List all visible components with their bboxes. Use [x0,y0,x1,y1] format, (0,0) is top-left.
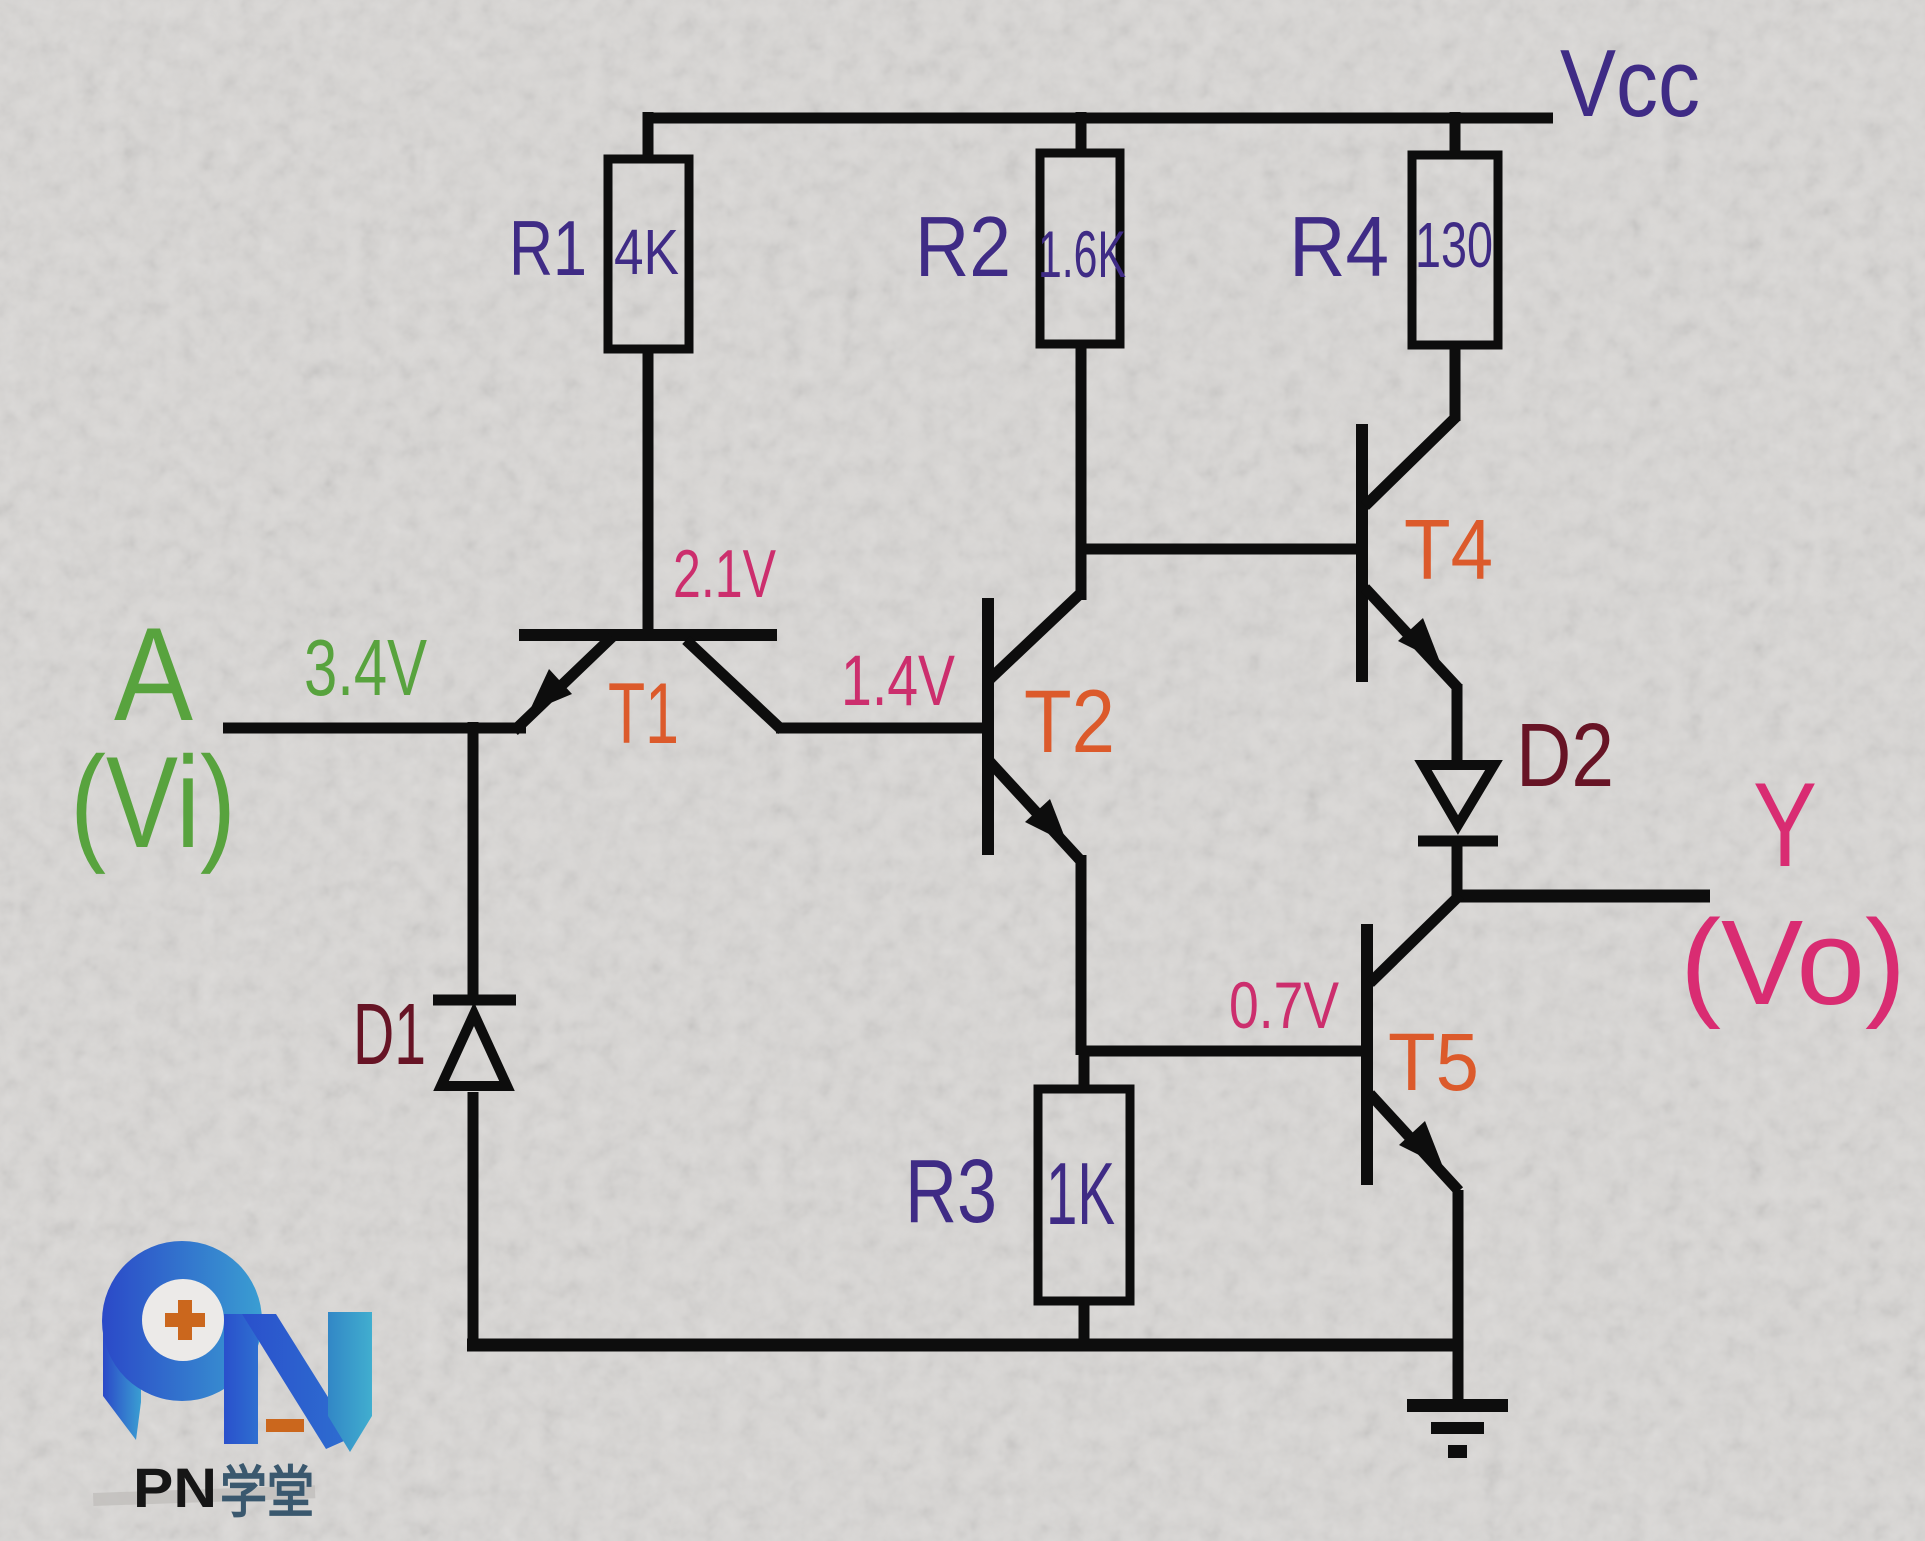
svg-text:PN: PN [133,1456,217,1519]
svg-text:2.1V: 2.1V [673,536,776,612]
svg-text:R4: R4 [1289,200,1389,295]
svg-text:D1: D1 [353,986,426,1083]
svg-text:学堂: 学堂 [220,1461,314,1524]
svg-text:A: A [114,601,193,749]
svg-text:T4: T4 [1404,503,1493,598]
svg-text:Vcc: Vcc [1560,30,1700,137]
svg-text:(Vi): (Vi) [70,729,236,875]
svg-text:T5: T5 [1388,1017,1479,1108]
svg-text:(Vo): (Vo) [1680,894,1906,1030]
svg-text:R2: R2 [915,200,1011,295]
svg-text:130: 130 [1415,209,1493,281]
svg-text:1K: 1K [1046,1144,1115,1243]
svg-text:0.7V: 0.7V [1229,968,1339,1042]
svg-text:R3: R3 [905,1142,997,1242]
svg-text:T1: T1 [608,666,679,762]
svg-text:Y: Y [1753,758,1817,892]
svg-text:1.6K: 1.6K [1038,217,1126,291]
svg-text:R1: R1 [509,204,587,292]
svg-text:T2: T2 [1024,671,1115,771]
svg-text:4K: 4K [614,216,679,288]
svg-text:3.4V: 3.4V [304,623,427,712]
svg-text:D2: D2 [1516,706,1614,806]
svg-text:1.4V: 1.4V [841,642,955,721]
